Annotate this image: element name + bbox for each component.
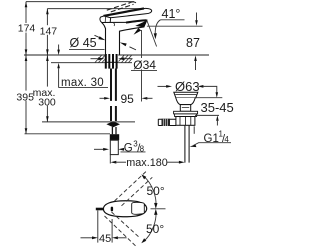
svg-text:147: 147 (40, 26, 58, 38)
hatching left of shank (95, 55, 132, 62)
dome (176, 98, 195, 105)
spout top thick edge (126, 20, 147, 22)
lever rear block (100, 16, 111, 23)
dimension 95 (100, 92, 153, 106)
lever handle (104, 8, 152, 17)
dimension max 30 (deck thickness) (57, 45, 108, 90)
centerline tick at lever axis (151, 208, 166, 210)
svg-text:G: G (124, 142, 133, 154)
angular dimension 50 deg upper (141, 174, 165, 209)
hose connector diamond (106, 121, 120, 127)
aerator extension line (behind label) (141, 30, 143, 102)
dimension 45 (plan) (81, 211, 127, 246)
hose nut outline (110, 140, 118, 154)
svg-text:50°: 50° (146, 222, 164, 236)
label G 3/8 (94, 139, 146, 154)
flange (174, 92, 198, 98)
drain pop-up waste assembly (158, 92, 198, 162)
wire: dimension 174 vertical line (18, 2, 36, 55)
spray direction line (147, 21, 157, 47)
dimension 395 (16, 55, 110, 133)
short edge extension right (193, 126, 195, 134)
faucet body side view (100, 2, 157, 55)
dimension max 180 (111, 157, 185, 169)
svg-text:395: 395 (16, 91, 34, 103)
svg-text:max.180: max.180 (126, 157, 167, 169)
bottom view: dashed swung handle positions (105, 172, 153, 246)
mounting shank below deck (dark) (105, 54, 118, 69)
wire: top extension line (raised lever height) (26, 1, 134, 3)
diagonal diameter arrows across base (95, 35, 101, 38)
dashed raised lever (107, 3, 130, 11)
spray arrowhead (134, 28, 142, 35)
drain: dimension diameter 63 (158, 79, 219, 98)
hose nut black (110, 134, 119, 140)
svg-text:35-45: 35-45 (201, 100, 234, 115)
label G 1 1/4 (190, 130, 231, 148)
dimension 87 (186, 13, 200, 71)
svg-text:50°: 50° (147, 184, 165, 198)
label 41deg (154, 7, 185, 39)
bottom view: spout stub (96, 208, 103, 211)
tailpipe (185, 125, 189, 162)
countertop deck (24, 55, 209, 63)
spout black tip wedge (135, 20, 147, 27)
body / base (102, 20, 147, 55)
svg-text:174: 174 (18, 22, 36, 34)
svg-text:300: 300 (38, 96, 56, 108)
wire: spout outlet extension line (147, 25, 203, 27)
side outlet (158, 119, 176, 125)
label diameter 45 (69, 35, 136, 50)
supply hoses below shank (106, 69, 120, 164)
svg-text:41°: 41° (162, 7, 181, 21)
body (176, 117, 195, 126)
locknut band (174, 111, 198, 114)
wire: extension line lever top (47, 8, 146, 10)
bottom view: handle plan (teardrop) (103, 201, 146, 217)
small inner mark on body (114, 23, 115, 26)
svg-text:Ø 45: Ø 45 (70, 36, 97, 50)
dimension 35-45 (195, 98, 234, 126)
svg-text:95: 95 (121, 92, 135, 106)
label diameter 34 (91, 30, 158, 102)
wire: dimension 147 vertical line (40, 9, 58, 55)
svg-text:45: 45 (99, 233, 111, 245)
dimension max 300 (33, 55, 135, 122)
svg-text:87: 87 (186, 36, 200, 50)
angular dimension 50 deg lower (141, 209, 164, 243)
collar (180, 105, 190, 112)
